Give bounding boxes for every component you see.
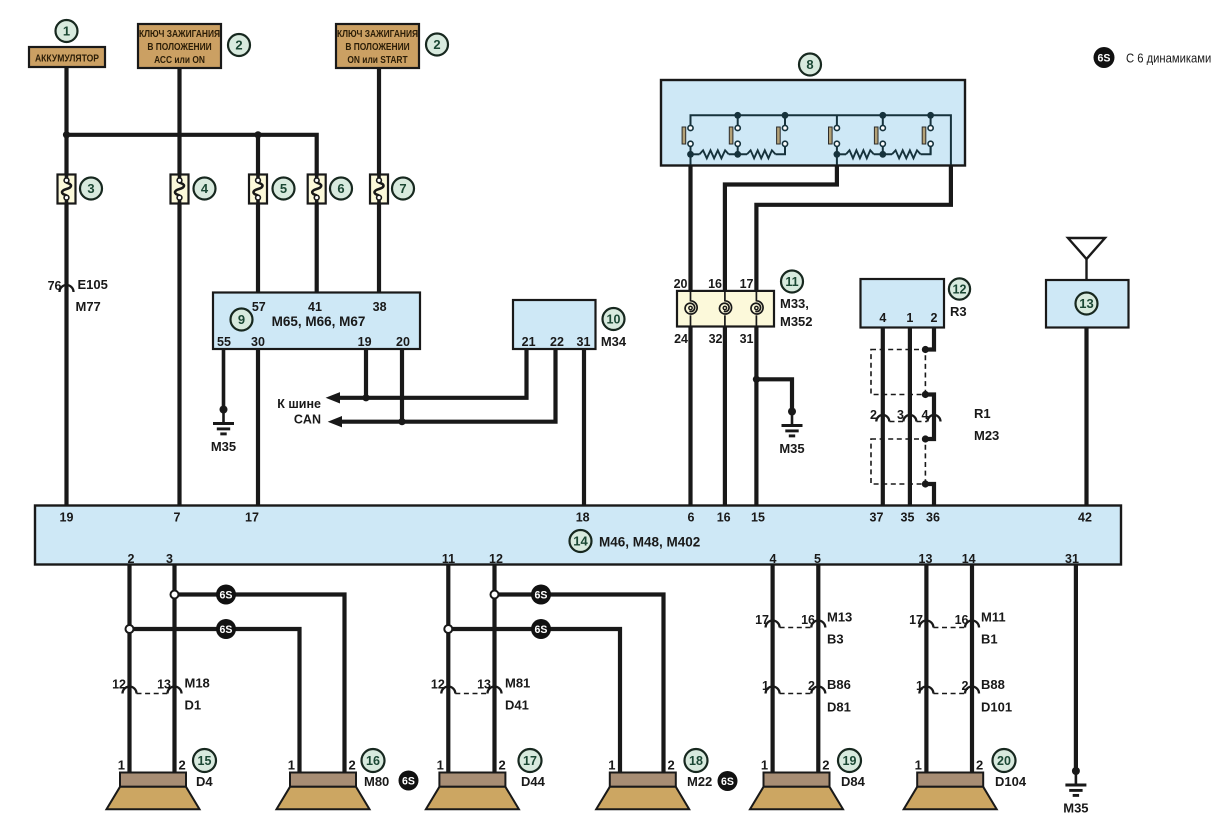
svg-text:17: 17 [755,613,769,627]
ground M35 left [211,406,236,455]
svg-text:19: 19 [60,511,74,525]
dashed connector R1 top [871,350,925,395]
svg-text:1: 1 [762,679,769,693]
fuse 6 [308,175,352,204]
pin labels box14 top [60,511,1092,525]
svg-text:16: 16 [708,277,722,291]
svg-text:17: 17 [909,613,923,627]
svg-text:В ПОЛОЖЕНИИ: В ПОЛОЖЕНИИ [147,41,212,52]
svg-text:R3: R3 [950,304,967,319]
svg-text:36: 36 [926,511,940,525]
svg-text:2: 2 [822,758,829,773]
connector M13/B3 [755,610,852,647]
wire branch to speaker18 pin1 [448,629,620,773]
wire branch to speaker16 pin1 [130,629,300,773]
svg-text:M352: M352 [780,314,813,329]
svg-text:41: 41 [308,300,322,314]
svg-text:D81: D81 [827,700,851,715]
wire fuse6 to box9 pin41 [315,204,319,293]
resistor box8 R-c [846,150,874,158]
svg-text:R1: R1 [974,406,991,421]
svg-text:12: 12 [112,678,126,692]
wire pin4 to speaker19 pin1 [770,565,774,773]
svg-text:7: 7 [399,181,406,196]
coil U11 b [719,291,731,314]
label 6S a [216,585,236,605]
label 6S d [531,619,551,639]
svg-text:4: 4 [770,552,777,566]
svg-text:2: 2 [433,37,440,52]
wire box8 bottom rail group2 [837,153,846,155]
svg-text:2: 2 [349,758,356,773]
svg-text:M77: M77 [76,299,101,314]
speaker 18 M22 [596,758,689,810]
svg-text:7: 7 [174,511,181,525]
svg-text:14: 14 [573,534,588,549]
svg-text:2: 2 [499,758,506,773]
svg-text:5: 5 [814,552,821,566]
wire R3 pin4 to pin37 [881,328,885,506]
speaker 16 M80 [277,758,370,810]
node R1 mid [922,435,929,442]
svg-text:М35: М35 [211,439,236,454]
wire box9 pin55 to ground [222,349,226,410]
box U14 M46,M48,M402 amplifier [35,506,1121,565]
svg-text:30: 30 [251,335,265,349]
svg-text:2: 2 [235,38,242,53]
svg-text:20: 20 [396,335,410,349]
svg-text:31: 31 [577,335,591,349]
svg-text:M13: M13 [827,610,852,625]
svg-text:2: 2 [962,679,969,693]
fuse 5 [249,175,295,204]
speaker 15 D4 [107,758,200,810]
svg-text:ON или START: ON или START [347,54,408,65]
ground M35 middle [779,408,804,457]
connector U11 M33,M352 [674,277,774,346]
legend 6S with 6 speakers [1094,47,1115,68]
svg-text:1: 1 [437,758,444,773]
svg-text:57: 57 [252,300,266,314]
svg-text:20: 20 [674,277,688,291]
wire box8 to box11 pin17 [756,165,951,291]
svg-text:37: 37 [870,511,884,525]
wire CAN line1 [339,349,527,398]
svg-text:18: 18 [576,511,590,525]
coil U11 a [685,291,697,314]
label 6S c [531,585,551,605]
svg-text:5: 5 [280,181,287,196]
svg-text:6S: 6S [535,624,548,636]
svg-text:D41: D41 [505,698,529,713]
wire pin13 to speaker20 pin1 [924,565,928,773]
wire ground branch [756,379,792,411]
svg-text:E105: E105 [78,277,108,292]
svg-text:18: 18 [689,754,703,768]
pin labels box14 bottom [128,552,1079,566]
svg-text:2: 2 [931,311,938,325]
svg-text:1: 1 [63,24,70,39]
wire box11 pin32 to pin16 [723,327,727,506]
node ground branch [753,376,760,383]
box U13 antenna amp [1046,280,1129,328]
node box8 n2 [734,151,741,158]
svg-text:M80: M80 [364,774,389,789]
svg-text:8: 8 [806,57,813,72]
battery 1 АККУМУЛЯТОР [29,20,105,67]
svg-text:М65, М66, М67: М65, М66, М67 [272,314,366,329]
svg-text:6S: 6S [220,589,233,601]
wire branch to speaker16 pin2 [175,595,345,774]
svg-text:АККУМУЛЯТОР: АККУМУЛЯТОР [35,53,99,64]
wire fuse4 to pin7 [177,204,181,506]
svg-text:M81: M81 [505,676,530,691]
svg-text:CAN: CAN [294,413,321,427]
wire box8 bottom rail group1 [691,153,700,155]
label 6S b [216,619,236,639]
svg-text:6S: 6S [721,776,734,788]
svg-text:КЛЮЧ ЗАЖИГАНИЯ: КЛЮЧ ЗАЖИГАНИЯ [337,28,418,39]
svg-text:1: 1 [915,758,922,773]
svg-text:2: 2 [668,758,675,773]
svg-text:2: 2 [128,552,135,566]
node fuse5 junction [254,131,261,138]
svg-text:6S: 6S [402,775,415,787]
node box8 n5 [879,151,886,158]
svg-text:13: 13 [1079,296,1093,311]
svg-text:1: 1 [118,758,125,773]
svg-text:4: 4 [922,408,929,422]
wire fuse5 tap [256,135,260,175]
svg-text:4: 4 [879,311,886,325]
box U10 M34 [513,300,596,349]
svg-text:16: 16 [717,511,731,525]
node branch sp18-1 [444,625,452,633]
wire box11 pin24 to pin6 [688,327,692,506]
svg-text:2: 2 [808,679,815,693]
fuse 3 [58,175,103,204]
connector M11/B1 [909,610,1005,647]
svg-text:35: 35 [901,511,915,525]
svg-text:55: 55 [217,335,231,349]
svg-text:21: 21 [522,335,536,349]
node rail sw785.0 [782,112,789,119]
svg-text:4: 4 [201,181,209,196]
wire branch to speaker18 pin2 [495,595,664,774]
svg-text:6S: 6S [535,589,548,601]
resistor box8 R-b [747,150,776,158]
wire pin3 to speaker15 pin2 [172,565,176,773]
wire box8 to box11 pin16 [725,165,837,291]
svg-text:D101: D101 [981,700,1012,715]
svg-text:38: 38 [373,300,387,314]
svg-text:КЛЮЧ ЗАЖИГАНИЯ: КЛЮЧ ЗАЖИГАНИЯ [139,28,220,39]
svg-text:9: 9 [238,312,245,327]
wire fuse5 to box9 pin57 [256,204,260,293]
wire fuse3 to pin19 with connector E105 [64,204,68,506]
svg-text:17: 17 [740,277,754,291]
svg-text:6: 6 [337,181,344,196]
svg-text:1: 1 [916,679,923,693]
svg-text:16: 16 [955,613,969,627]
speaker 17 D44 [426,758,519,810]
node battery bus junction [63,131,70,138]
svg-text:31: 31 [1065,552,1079,566]
wire pin14 to speaker20 pin2 [970,565,974,773]
svg-text:B88: B88 [981,677,1005,692]
node CAN2 pin20 [398,418,405,425]
svg-text:M23: M23 [974,428,999,443]
svg-text:M35: M35 [1063,801,1088,816]
ground M35 right [1063,767,1088,816]
svg-text:13: 13 [157,678,171,692]
wire pin5 to speaker19 pin2 [816,565,820,773]
svg-text:20: 20 [997,754,1011,768]
svg-text:3: 3 [166,552,173,566]
svg-text:АСС или ON: АСС или ON [154,54,205,65]
box U9 M65,M66,M67 [213,293,420,350]
svg-text:D104: D104 [995,774,1027,789]
svg-text:М34: М34 [601,334,627,349]
wire box11 pin31 to pin15 [754,327,758,506]
svg-text:1: 1 [906,311,913,325]
wire box8 top rail [691,115,951,165]
ignition key ON/START box 2 [336,24,448,68]
svg-text:B3: B3 [827,632,844,647]
svg-text:11: 11 [442,552,455,566]
svg-text:M33,: M33, [780,296,809,311]
wire box9 pin20 to CAN2 [400,349,404,422]
svg-text:В ПОЛОЖЕНИИ: В ПОЛОЖЕНИИ [345,41,410,52]
resistor box8 R-a [700,150,729,158]
wire box9 pin30 to pin17 [256,349,260,506]
wire R3 pin1 to pin35 [908,328,912,506]
svg-text:22: 22 [550,335,564,349]
node rail sw737.7 [734,112,741,119]
arrow CAN1 [326,392,340,403]
wire box13 to pin42 [1084,328,1088,506]
svg-text:К шине: К шине [277,397,321,411]
svg-text:2: 2 [179,758,186,773]
svg-text:М35: М35 [779,441,804,456]
svg-text:15: 15 [751,511,765,525]
svg-text:3: 3 [897,408,904,422]
label 6S e [399,771,419,791]
speaker 19 D84 [750,758,843,810]
svg-text:6: 6 [688,511,695,525]
node branch sp16-1 [126,625,134,633]
wire R1 pin4 seg [925,395,934,440]
svg-text:1: 1 [761,758,768,773]
svg-text:M22: M22 [687,774,712,789]
svg-text:12: 12 [953,283,967,297]
svg-text:D84: D84 [841,774,866,789]
svg-text:10: 10 [607,313,621,327]
svg-text:D4: D4 [196,774,213,789]
node branch sp16-2 [171,591,179,599]
svg-text:2: 2 [976,758,983,773]
wire box10 pin31 to pin18 [582,349,586,506]
coil U11 c [751,291,763,314]
svg-text:19: 19 [843,754,857,768]
wire pin31 to ground [1074,565,1078,771]
svg-text:76: 76 [48,279,62,293]
wire battery bus [67,135,317,175]
node rail sw882.8 [879,112,886,119]
svg-text:3: 3 [87,181,94,196]
svg-text:16: 16 [801,613,815,627]
wire battery down [64,67,68,175]
node branch sp18-2 [491,591,499,599]
connector M18/D1 [112,676,210,713]
wire pin11 to speaker17 pin1 [446,565,450,773]
svg-text:14: 14 [962,552,976,566]
svg-text:6S: 6S [220,624,233,636]
resistor box8 R-d [892,150,921,158]
svg-text:М46, М48, М402: М46, М48, М402 [599,535,700,550]
fuse 4 [171,175,216,204]
svg-text:17: 17 [523,754,537,768]
dashed connector R1 bottom [871,439,925,484]
node CAN1 pin19 [362,394,369,401]
svg-text:24: 24 [674,332,688,346]
svg-text:31: 31 [740,332,754,346]
svg-text:M18: M18 [185,676,210,691]
svg-text:B86: B86 [827,677,851,692]
svg-text:12: 12 [489,552,503,566]
svg-text:17: 17 [245,511,259,525]
svg-text:1: 1 [288,758,295,773]
connector B86/D81 [762,677,851,715]
svg-text:6S: 6S [1098,52,1111,64]
svg-text:15: 15 [198,754,212,768]
arrow CAN2 [328,416,342,427]
wire key1 down to fuse 4 [177,68,181,175]
svg-text:13: 13 [477,678,491,692]
antenna [1068,238,1105,280]
svg-text:12: 12 [431,678,445,692]
label K shine CAN [277,397,321,427]
fuse 7 [370,175,414,204]
connector R1/M23 pins 2 3 4 [870,408,940,422]
wire pin12 to speaker17 pin2 [492,565,496,773]
label 6S f [718,771,738,791]
node box8 exit2 [834,151,841,158]
connector B88/D101 [916,677,1012,715]
ignition key ACC/ON box 2 [138,24,250,68]
connector M81/D41 [431,676,530,713]
svg-text:1: 1 [608,758,615,773]
node box8 exit1 [687,151,694,158]
svg-text:16: 16 [366,754,380,768]
svg-text:2: 2 [870,408,877,422]
wire key2 down to fuse 7 [377,68,381,175]
svg-text:D1: D1 [185,698,202,713]
wire pin2 to speaker15 pin1 [127,565,131,773]
node R1 bot [922,480,929,487]
wire fuse7 to box9 pin38 [377,204,381,293]
wire box8 to box11 pin20 [688,165,692,291]
connector 76 E105/M77 [48,277,108,314]
wire box9 pin19 to CAN1 [364,349,368,398]
wire CAN line2 [341,349,556,422]
svg-text:32: 32 [709,332,723,346]
svg-text:13: 13 [919,552,933,566]
box U12 R3 [861,279,945,328]
svg-text:42: 42 [1078,511,1092,525]
speaker 20 D104 [904,758,997,810]
svg-text:11: 11 [785,275,798,289]
node R1 top [922,391,929,398]
svg-text:19: 19 [358,335,372,349]
wire R3 pin2 jog [925,328,934,350]
node rail sw930.6 [927,112,934,119]
svg-text:С 6 динамиками: С 6 динамиками [1126,51,1211,66]
box U8 steering switches [661,80,965,166]
svg-text:M11: M11 [981,610,1006,625]
svg-text:D44: D44 [521,774,546,789]
wire R1 to pin36 [925,484,934,506]
node R3 jog1 [922,346,929,353]
svg-text:B1: B1 [981,632,998,647]
switches S1-S6 [682,125,693,154]
